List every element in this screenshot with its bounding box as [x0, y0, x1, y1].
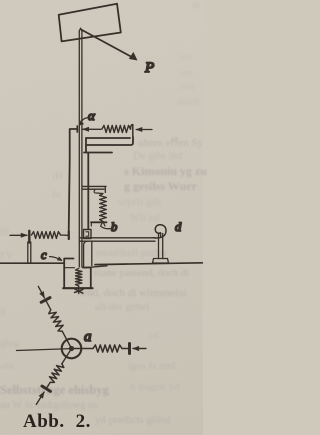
- spring b (vertical): [100, 194, 107, 222]
- upper-left branch: [34, 284, 75, 349]
- spring a end bracket: [131, 125, 133, 137]
- square bracket on rod: [84, 230, 92, 239]
- rod (main vertical, double line): [78, 31, 80, 267]
- bracket verticals above box: [84, 241, 87, 267]
- spring a (horizontal): [102, 125, 131, 132]
- node circle a: [62, 339, 82, 359]
- bar below channel: [84, 152, 112, 154]
- lower-left branch: [32, 348, 75, 407]
- anchor mark under box: [78, 286, 80, 294]
- svg-text:a: a: [84, 329, 92, 345]
- arrow into rod at a: [83, 128, 101, 130]
- svg-text:c: c: [41, 248, 47, 262]
- svg-text:d: d: [175, 220, 182, 234]
- link spring to hanger T-bar: [61, 234, 69, 236]
- box spring: [76, 269, 82, 287]
- force arrow P: [82, 30, 136, 59]
- left line from node: [17, 349, 72, 351]
- bar D (spring b top support): [83, 185, 107, 187]
- arrow at spring a right end: [136, 129, 152, 131]
- right hanger vertical: [87, 153, 89, 230]
- base of d: [153, 259, 169, 264]
- curl at d: [153, 225, 166, 238]
- caption: [23, 411, 91, 433]
- long bar to d (double line): [80, 237, 156, 239]
- bar E (spring b bottom anchor): [91, 221, 107, 223]
- box bottom: [63, 287, 92, 289]
- svg-text:P: P: [144, 60, 154, 76]
- node center dot: [69, 346, 74, 351]
- stub bar on box top right: [85, 266, 107, 268]
- ground line left: [0, 262, 64, 264]
- left anchor post (double): [27, 242, 29, 263]
- left T-bar anchor: [28, 231, 30, 243]
- ghost bleed-through text: [192, 0, 200, 11]
- svg-text:α: α: [88, 108, 96, 123]
- plate (top vane): [59, 4, 121, 42]
- hanger bottom T-bar: [68, 232, 70, 240]
- arrow into left T-bar: [10, 234, 27, 236]
- paper grain noise: [0, 0, 203, 435]
- right branch: line, spring, bar, arrow: [74, 344, 147, 354]
- hook to spring b: [94, 190, 102, 194]
- left hanger hook on rod: [76, 126, 78, 132]
- box right wall + stub: [83, 268, 91, 289]
- ground line right: [95, 263, 203, 265]
- spring c-left (horizontal): [32, 232, 61, 239]
- small arrow under spring b: [101, 222, 105, 227]
- channel bracket under spring a: [86, 137, 130, 139]
- left hanger vertical: [69, 160, 70, 232]
- box (dashpot) left wall + top stub: [64, 259, 73, 289]
- post of d: [158, 234, 160, 259]
- svg-text:b: b: [111, 220, 117, 234]
